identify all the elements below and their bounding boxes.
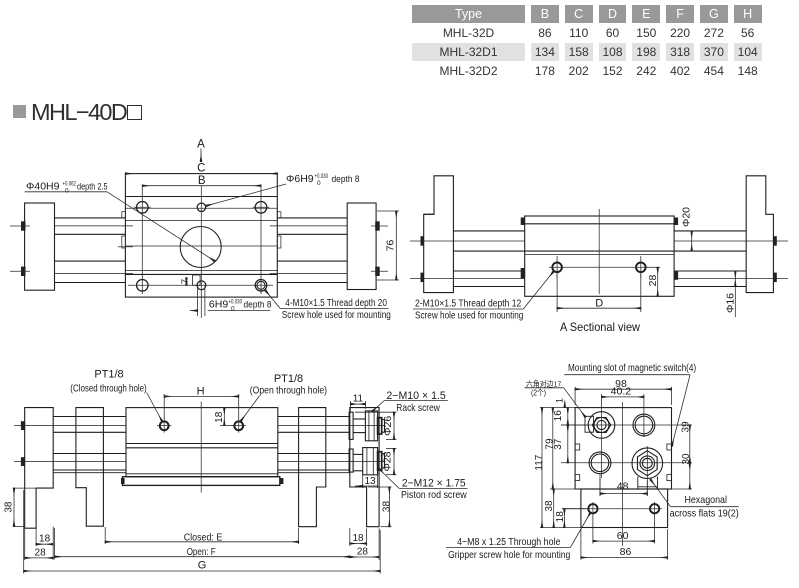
- svg-text:Gripper screw hole for mountin: Gripper screw hole for mounting: [448, 550, 570, 561]
- svg-text:across flats 19(2): across flats 19(2): [670, 507, 739, 519]
- svg-text:11: 11: [353, 393, 364, 404]
- svg-text:2-M10×1.5 Thread depth 12: 2-M10×1.5 Thread depth 12: [415, 299, 522, 310]
- svg-text:18: 18: [39, 534, 51, 545]
- svg-text:38: 38: [381, 501, 392, 513]
- svg-text:60: 60: [617, 530, 629, 542]
- svg-text:PT1/8: PT1/8: [274, 373, 303, 385]
- svg-text:7: 7: [180, 279, 191, 284]
- svg-text:86: 86: [620, 546, 632, 558]
- svg-text:B: B: [198, 175, 206, 187]
- svg-text:2−M10 × 1.5: 2−M10 × 1.5: [386, 390, 445, 402]
- svg-text:40.2: 40.2: [611, 386, 632, 398]
- svg-text:28: 28: [647, 275, 659, 287]
- svg-text:Screw hole used for mounting: Screw hole used for mounting: [415, 310, 523, 321]
- svg-text:28: 28: [35, 547, 47, 558]
- svg-text:A Sectional view: A Sectional view: [560, 320, 640, 334]
- svg-text:16: 16: [553, 410, 564, 422]
- svg-text:18: 18: [555, 511, 566, 523]
- svg-text:Φ16: Φ16: [725, 293, 737, 313]
- svg-text:4−M8 x 1.25 Through hole: 4−M8 x 1.25 Through hole: [457, 537, 561, 548]
- svg-text:G: G: [198, 560, 207, 572]
- svg-text:18: 18: [352, 533, 364, 544]
- svg-text:76: 76: [385, 240, 397, 252]
- svg-text:Rack screw: Rack screw: [396, 403, 440, 414]
- svg-text:D: D: [595, 297, 603, 309]
- svg-text:13: 13: [364, 476, 376, 487]
- svg-text:Open: F: Open: F: [187, 546, 216, 558]
- svg-text:39: 39: [680, 421, 691, 433]
- svg-text:28: 28: [357, 547, 369, 558]
- svg-text:(2个): (2个): [531, 387, 546, 397]
- svg-text:Screw hole used for mounting: Screw hole used for mounting: [282, 310, 391, 321]
- svg-text:C: C: [197, 163, 205, 175]
- svg-text:(Open through hole): (Open through hole): [250, 386, 327, 397]
- svg-text:Φ40H9+0.0620depth 2.5: Φ40H9+0.0620depth 2.5: [26, 181, 108, 195]
- svg-text:30: 30: [681, 453, 692, 465]
- svg-text:117: 117: [534, 454, 545, 470]
- svg-text:38: 38: [544, 500, 555, 512]
- svg-text:1: 1: [554, 398, 564, 403]
- svg-text:48: 48: [617, 480, 629, 492]
- svg-text:Φ28: Φ28: [382, 451, 394, 471]
- svg-text:Mounting slot of magnetic swit: Mounting slot of magnetic switch(4): [568, 363, 696, 374]
- svg-text:PT1/8: PT1/8: [94, 369, 123, 381]
- svg-text:Φ26: Φ26: [382, 416, 394, 436]
- svg-text:2−M12 × 1.75: 2−M12 × 1.75: [402, 478, 466, 490]
- svg-text:Φ6H9+0.0300depth 8: Φ6H9+0.0300depth 8: [286, 173, 360, 187]
- svg-text:Piston rod screw: Piston rod screw: [401, 490, 467, 501]
- svg-text:(Closed through hole): (Closed through hole): [70, 383, 146, 394]
- svg-text:H: H: [197, 386, 205, 398]
- svg-text:4-M10×1.5 Thread depth 20: 4-M10×1.5 Thread depth 20: [285, 298, 387, 309]
- svg-text:Hexagonal: Hexagonal: [684, 494, 727, 506]
- svg-text:79: 79: [545, 438, 556, 450]
- svg-text:18: 18: [214, 411, 225, 423]
- svg-text:Φ20: Φ20: [681, 207, 693, 227]
- svg-text:Closed: E: Closed: E: [184, 532, 223, 544]
- svg-text:38: 38: [4, 501, 15, 513]
